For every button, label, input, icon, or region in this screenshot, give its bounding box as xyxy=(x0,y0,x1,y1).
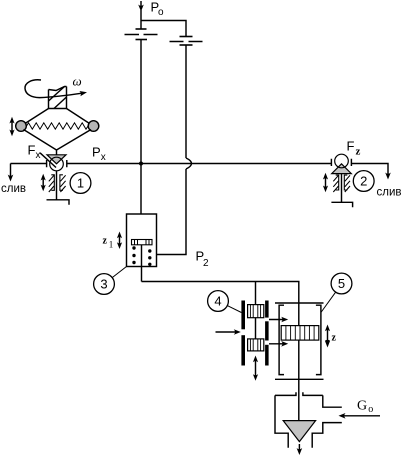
valve 2 port ticks xyxy=(331,159,351,166)
valve 1 nozzle circle xyxy=(50,157,64,171)
block 3 port dots left xyxy=(132,246,135,264)
valve 1 drain sleeve right bracket xyxy=(60,175,66,192)
cylinder 5 right wall bracket xyxy=(316,305,321,374)
drain arrow left xyxy=(8,164,14,182)
callout circle 2 xyxy=(353,171,374,192)
governor spring xyxy=(27,123,89,129)
svg-text:G: G xyxy=(357,399,367,414)
governor motion double arrow xyxy=(9,117,14,136)
svg-text:x: x xyxy=(36,150,41,161)
svg-text:ω: ω xyxy=(73,74,82,89)
valve 1 port ticks xyxy=(47,160,67,167)
block 3 spool bar xyxy=(132,240,153,245)
svg-text:2: 2 xyxy=(360,174,367,189)
valve 1 drain stem xyxy=(56,171,58,200)
valve 2 tank symbol xyxy=(331,202,352,207)
z1 motion double arrow xyxy=(117,232,122,250)
label z with motion double arrow xyxy=(325,325,330,348)
valve 4 right sleeve wall xyxy=(265,301,269,366)
cylinder 5 left wall bracket xyxy=(279,305,284,374)
svg-text:P: P xyxy=(92,145,101,160)
valve 2 drain stem xyxy=(341,174,343,203)
main line valve 2 to drain right xyxy=(351,164,388,175)
nozzle housing left wall xyxy=(275,395,288,447)
G0 inlet arrow xyxy=(339,413,381,419)
main line Px valve1 to valve2 xyxy=(67,163,332,165)
cylinder 5 upper port arrow xyxy=(269,317,288,323)
valve 4 lower spool land xyxy=(248,339,264,351)
valve 4 left sleeve wall xyxy=(241,301,245,366)
valve 1 motion double arrow xyxy=(41,174,46,192)
cylinder 5 bottom cap xyxy=(275,378,324,380)
valve 4 spool rod xyxy=(255,318,257,339)
svg-text:z: z xyxy=(332,333,337,344)
callout circle 4 with leader xyxy=(208,291,229,312)
valve 4 inlet arrow xyxy=(216,329,241,335)
cylinder 5 piston xyxy=(281,326,319,341)
governor stem link xyxy=(56,150,58,155)
svg-text:o: o xyxy=(158,7,164,18)
junction node dot xyxy=(139,162,143,166)
valve 2 nozzle circle xyxy=(335,154,349,168)
nozzle housing gland xyxy=(275,392,323,395)
drain arrow right xyxy=(385,173,391,180)
pressure source symbol B1 (left) xyxy=(125,29,158,40)
rotor block of centrifugal governor xyxy=(49,87,67,109)
nozzle plug gray triangle xyxy=(283,421,315,442)
wire from B1 down to node A and valve block 3 xyxy=(140,40,142,215)
pressure source symbol B2 (right) xyxy=(170,37,203,46)
node P0 input arrow xyxy=(138,1,144,12)
valve 2 drain sleeve right bracket xyxy=(344,175,350,192)
valve 2 motion double arrow xyxy=(323,173,328,192)
rotation arrow omega xyxy=(25,80,87,98)
callout circle 1 xyxy=(70,173,91,194)
main line Px left of valve 1 xyxy=(11,163,47,165)
valve 2 gray plug triangle xyxy=(332,164,352,174)
flyweight left xyxy=(16,121,27,132)
callout circle 5 with leader xyxy=(331,273,352,294)
wire from P0 down to left source xyxy=(140,10,142,29)
wire branch to right source xyxy=(141,21,186,37)
valve 2 drain sleeve left bracket xyxy=(333,175,338,192)
wire from block 3 to actuator xyxy=(142,282,299,421)
valve 4 spool motion double arrow xyxy=(253,356,258,381)
valve 1 tank symbol xyxy=(47,200,70,205)
wire stub to pilot spool xyxy=(255,282,257,305)
svg-text:F: F xyxy=(347,139,355,154)
svg-text:1: 1 xyxy=(77,176,84,191)
svg-text:2: 2 xyxy=(203,258,209,269)
svg-text:x: x xyxy=(101,152,106,163)
nozzle outlet arrow xyxy=(297,444,303,455)
flyweight right xyxy=(88,121,99,132)
nozzle housing right wall and inlet xyxy=(323,395,342,407)
valve 1 gray plug triangle xyxy=(47,155,66,164)
svg-text:F: F xyxy=(28,143,36,158)
svg-text:o: o xyxy=(368,404,373,415)
valve 1 flapper line xyxy=(40,153,56,168)
svg-text:z: z xyxy=(103,236,108,247)
block 3 port dots right xyxy=(148,249,151,266)
svg-text:z: z xyxy=(356,146,361,158)
cylinder 5 lower port arrow xyxy=(269,341,288,347)
svg-text:3: 3 xyxy=(100,277,107,292)
svg-text:5: 5 xyxy=(338,276,345,291)
svg-text:4: 4 xyxy=(214,294,221,309)
valve 4 upper spool land xyxy=(248,305,264,318)
svg-text:1: 1 xyxy=(109,240,114,250)
valve 1 drain sleeve left bracket xyxy=(49,175,55,192)
callout circle 3 with leader xyxy=(94,274,115,295)
cylinder 5 top cap xyxy=(275,302,324,304)
block 3 output rod xyxy=(141,245,143,282)
svg-text:слив: слив xyxy=(377,187,402,199)
governor linkage lower arms xyxy=(24,130,92,151)
servo valve block 3 body xyxy=(127,214,157,267)
governor linkage upper arms xyxy=(25,109,90,124)
wire from B2 down with hop over main line xyxy=(185,45,187,158)
svg-text:слив: слив xyxy=(1,183,26,195)
